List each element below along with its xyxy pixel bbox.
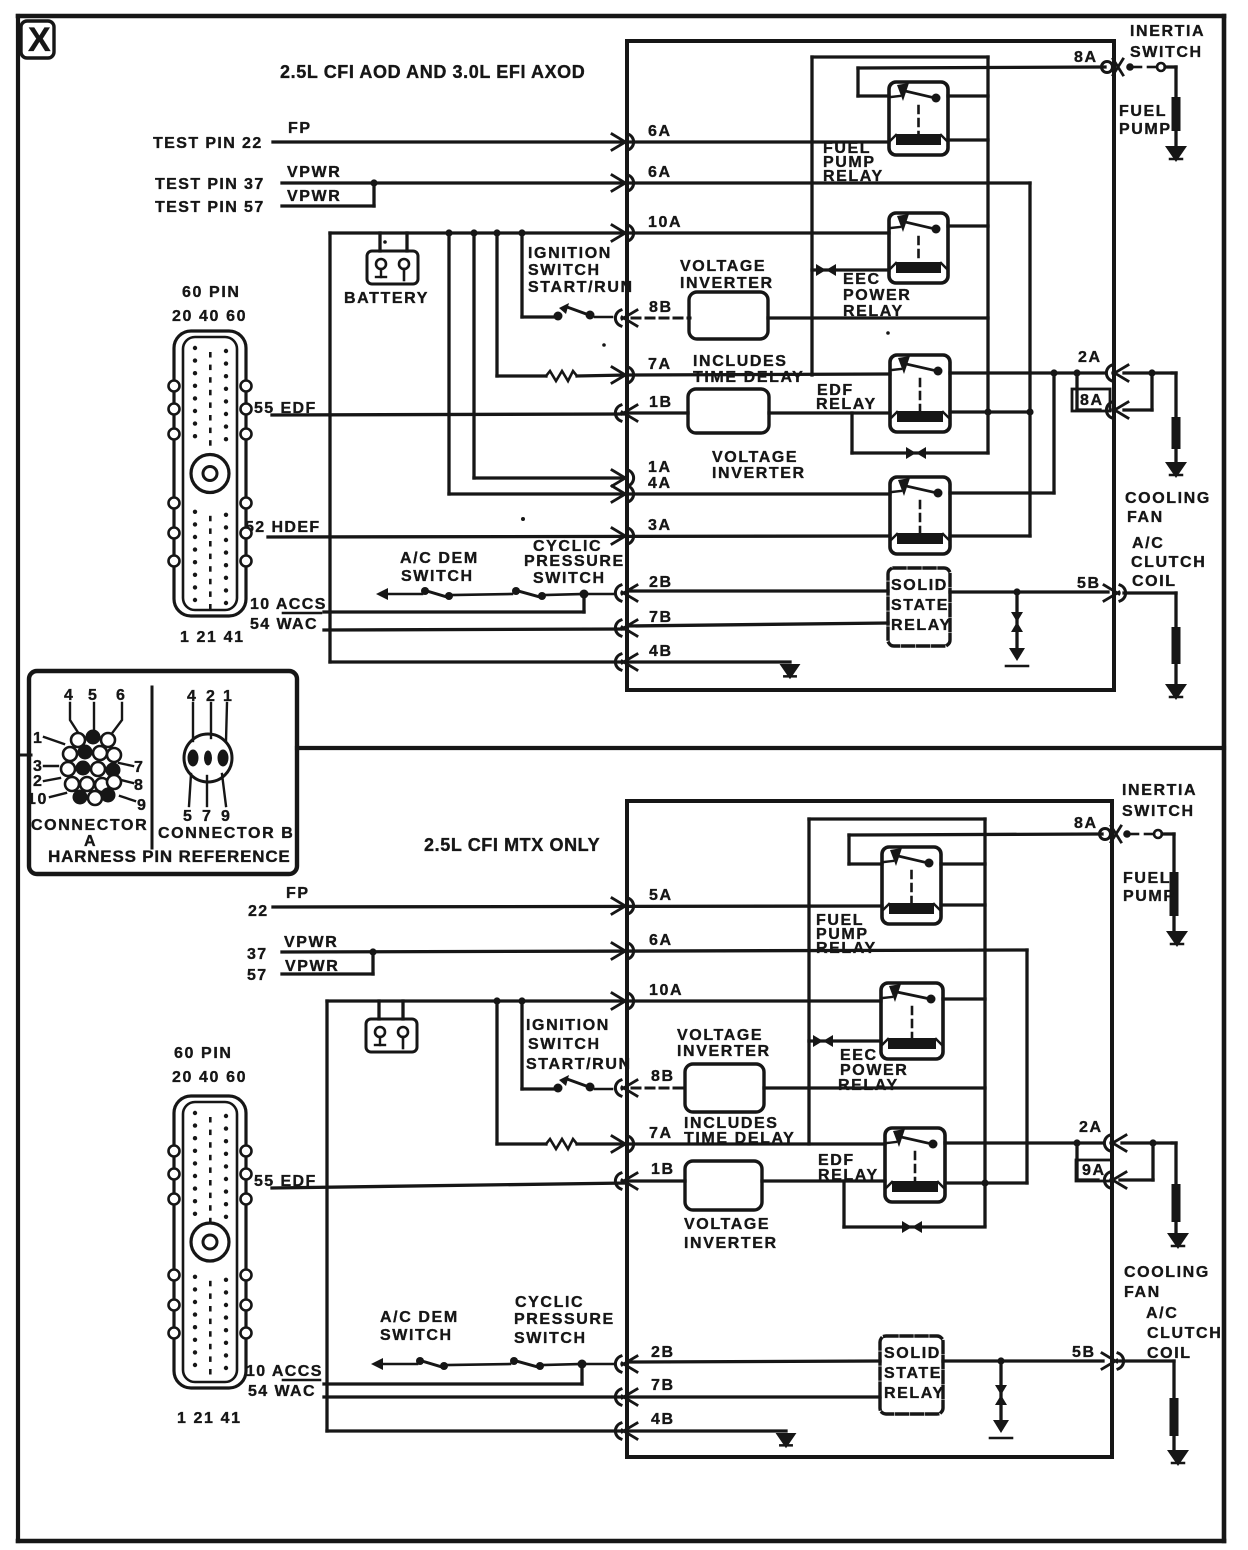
svg-text:10 ACCS: 10 ACCS bbox=[246, 1363, 323, 1380]
svg-text:52 HDEF: 52 HDEF bbox=[245, 519, 321, 536]
svg-text:HARNESS PIN REFERENCE: HARNESS PIN REFERENCE bbox=[48, 847, 291, 866]
svg-text:1A: 1A bbox=[648, 459, 672, 476]
svg-text:SWITCH: SWITCH bbox=[514, 1330, 587, 1347]
svg-text:IGNITION: IGNITION bbox=[528, 245, 612, 262]
svg-text:7A: 7A bbox=[648, 356, 672, 373]
svg-text:A/C DEM: A/C DEM bbox=[380, 1309, 459, 1326]
svg-text:9: 9 bbox=[137, 797, 148, 814]
svg-text:1B: 1B bbox=[651, 1161, 675, 1178]
svg-text:VOLTAGE: VOLTAGE bbox=[677, 1027, 763, 1044]
svg-text:22: 22 bbox=[248, 903, 269, 920]
svg-text:6A: 6A bbox=[649, 932, 673, 949]
svg-text:6: 6 bbox=[116, 687, 127, 704]
svg-text:RELAY: RELAY bbox=[816, 940, 877, 957]
svg-text:CYCLIC: CYCLIC bbox=[515, 1294, 584, 1311]
svg-text:VPWR: VPWR bbox=[287, 164, 341, 181]
svg-text:CONNECTOR B: CONNECTOR B bbox=[158, 825, 294, 842]
svg-text:10 ACCS: 10 ACCS bbox=[250, 596, 327, 613]
svg-text:STATE: STATE bbox=[884, 1365, 942, 1382]
svg-text:8B: 8B bbox=[649, 299, 673, 316]
svg-text:RELAY: RELAY bbox=[884, 1385, 945, 1402]
svg-text:A/C: A/C bbox=[1132, 535, 1164, 552]
svg-text:9: 9 bbox=[221, 808, 232, 825]
svg-text:TIME DELAY: TIME DELAY bbox=[693, 369, 804, 386]
svg-text:INVERTER: INVERTER bbox=[684, 1235, 778, 1252]
svg-text:3A: 3A bbox=[648, 517, 672, 534]
svg-text:2.5L CFI AOD AND 3.0L EFI AXOD: 2.5L CFI AOD AND 3.0L EFI AXOD bbox=[280, 62, 585, 82]
svg-text:CONNECTOR: CONNECTOR bbox=[31, 817, 148, 834]
svg-text:4B: 4B bbox=[651, 1411, 675, 1428]
svg-text:INVERTER: INVERTER bbox=[712, 465, 806, 482]
svg-text:INVERTER: INVERTER bbox=[680, 275, 774, 292]
svg-text:10A: 10A bbox=[648, 214, 682, 231]
svg-text:FAN: FAN bbox=[1124, 1284, 1161, 1301]
svg-text:TIME DELAY: TIME DELAY bbox=[684, 1130, 795, 1147]
svg-text:START/RUN: START/RUN bbox=[526, 1056, 632, 1073]
svg-text:7B: 7B bbox=[651, 1377, 675, 1394]
svg-text:A/C DEM: A/C DEM bbox=[400, 550, 479, 567]
svg-text:9A: 9A bbox=[1082, 1162, 1106, 1179]
svg-text:5: 5 bbox=[183, 808, 194, 825]
svg-text:PUMP: PUMP bbox=[1119, 121, 1172, 138]
svg-text:10A: 10A bbox=[649, 982, 683, 999]
svg-text:5A: 5A bbox=[649, 887, 673, 904]
svg-text:INERTIA: INERTIA bbox=[1130, 23, 1205, 40]
svg-text:SWITCH: SWITCH bbox=[401, 568, 474, 585]
svg-text:POWER: POWER bbox=[843, 287, 911, 304]
svg-text:8A: 8A bbox=[1074, 49, 1098, 66]
svg-text:VOLTAGE: VOLTAGE bbox=[684, 1216, 770, 1233]
svg-text:SWITCH: SWITCH bbox=[1122, 803, 1195, 820]
svg-text:1: 1 bbox=[33, 730, 44, 747]
svg-text:7B: 7B bbox=[649, 609, 673, 626]
svg-text:X: X bbox=[28, 21, 51, 59]
svg-text:37: 37 bbox=[247, 946, 268, 963]
svg-text:6A: 6A bbox=[648, 123, 672, 140]
svg-text:SWITCH: SWITCH bbox=[1130, 44, 1203, 61]
svg-text:FP: FP bbox=[288, 120, 312, 137]
svg-text:INERTIA: INERTIA bbox=[1122, 782, 1197, 799]
svg-text:SOLID: SOLID bbox=[891, 577, 948, 594]
svg-text:VOLTAGE: VOLTAGE bbox=[712, 449, 798, 466]
svg-text:FUEL: FUEL bbox=[1119, 103, 1167, 120]
svg-text:BATTERY: BATTERY bbox=[344, 290, 429, 307]
svg-text:COOLING: COOLING bbox=[1124, 1264, 1210, 1281]
svg-text:54 WAC: 54 WAC bbox=[250, 616, 318, 633]
svg-text:2B: 2B bbox=[651, 1344, 675, 1361]
svg-text:FUEL: FUEL bbox=[1123, 870, 1171, 887]
svg-text:TEST PIN 37: TEST PIN 37 bbox=[155, 176, 265, 193]
svg-text:60 PIN: 60 PIN bbox=[174, 1045, 233, 1062]
svg-text:4A: 4A bbox=[648, 475, 672, 492]
svg-text:SWITCH: SWITCH bbox=[528, 262, 601, 279]
svg-text:RELAY: RELAY bbox=[818, 1167, 879, 1184]
svg-text:2B: 2B bbox=[649, 574, 673, 591]
svg-text:20 40 60: 20 40 60 bbox=[172, 1069, 247, 1086]
svg-text:2A: 2A bbox=[1078, 349, 1102, 366]
svg-text:5B: 5B bbox=[1077, 575, 1101, 592]
svg-text:INVERTER: INVERTER bbox=[677, 1043, 771, 1060]
svg-text:COOLING: COOLING bbox=[1125, 490, 1211, 507]
svg-text:57: 57 bbox=[247, 967, 268, 984]
svg-text:START/RUN: START/RUN bbox=[528, 279, 634, 296]
svg-text:1 21 41: 1 21 41 bbox=[177, 1410, 242, 1427]
svg-text:RELAY: RELAY bbox=[838, 1077, 899, 1094]
svg-text:60 PIN: 60 PIN bbox=[182, 284, 241, 301]
svg-text:FP: FP bbox=[286, 885, 310, 902]
svg-text:4: 4 bbox=[64, 687, 75, 704]
svg-text:RELAY: RELAY bbox=[891, 617, 952, 634]
svg-text:COIL: COIL bbox=[1132, 573, 1177, 590]
svg-text:VOLTAGE: VOLTAGE bbox=[680, 258, 766, 275]
svg-text:7: 7 bbox=[202, 808, 213, 825]
svg-text:FAN: FAN bbox=[1127, 509, 1164, 526]
svg-text:INCLUDES: INCLUDES bbox=[693, 353, 788, 370]
svg-text:54 WAC: 54 WAC bbox=[248, 1383, 316, 1400]
svg-text:STATE: STATE bbox=[891, 597, 949, 614]
svg-text:RELAY: RELAY bbox=[843, 303, 904, 320]
svg-text:4B: 4B bbox=[649, 643, 673, 660]
svg-text:2.5L CFI MTX ONLY: 2.5L CFI MTX ONLY bbox=[424, 835, 600, 855]
svg-text:20 40 60: 20 40 60 bbox=[172, 308, 247, 325]
svg-text:PUMP: PUMP bbox=[1123, 888, 1176, 905]
svg-text:8: 8 bbox=[134, 777, 145, 794]
svg-text:PRESSURE: PRESSURE bbox=[514, 1311, 615, 1328]
svg-text:RELAY: RELAY bbox=[816, 396, 877, 413]
svg-text:EEC: EEC bbox=[843, 271, 881, 288]
svg-text:SWITCH: SWITCH bbox=[380, 1327, 453, 1344]
svg-text:SWITCH: SWITCH bbox=[533, 570, 606, 587]
svg-text:7: 7 bbox=[134, 759, 145, 776]
svg-text:1B: 1B bbox=[649, 394, 673, 411]
svg-text:8A: 8A bbox=[1074, 815, 1098, 832]
svg-text:6A: 6A bbox=[648, 164, 672, 181]
svg-text:PRESSURE: PRESSURE bbox=[524, 553, 625, 570]
svg-text:SWITCH: SWITCH bbox=[528, 1036, 601, 1053]
svg-text:10: 10 bbox=[27, 791, 48, 808]
svg-text:TEST PIN 57: TEST PIN 57 bbox=[155, 199, 265, 216]
svg-text:A/C: A/C bbox=[1146, 1305, 1178, 1322]
svg-text:1: 1 bbox=[223, 688, 234, 705]
svg-text:5: 5 bbox=[88, 687, 99, 704]
svg-text:SOLID: SOLID bbox=[884, 1345, 941, 1362]
svg-text:2A: 2A bbox=[1079, 1119, 1103, 1136]
svg-text:CLUTCH: CLUTCH bbox=[1147, 1325, 1222, 1342]
svg-text:CLUTCH: CLUTCH bbox=[1131, 554, 1206, 571]
svg-text:IGNITION: IGNITION bbox=[526, 1017, 610, 1034]
svg-text:TEST PIN 22: TEST PIN 22 bbox=[153, 135, 263, 152]
svg-text:VPWR: VPWR bbox=[284, 934, 338, 951]
svg-text:2: 2 bbox=[33, 773, 44, 790]
svg-text:8B: 8B bbox=[651, 1068, 675, 1085]
svg-text:VPWR: VPWR bbox=[287, 188, 341, 205]
svg-text:8A: 8A bbox=[1080, 392, 1104, 409]
svg-text:5B: 5B bbox=[1072, 1344, 1096, 1361]
svg-text:7A: 7A bbox=[649, 1125, 673, 1142]
svg-text:1 21 41: 1 21 41 bbox=[180, 629, 245, 646]
svg-text:RELAY: RELAY bbox=[823, 168, 884, 185]
